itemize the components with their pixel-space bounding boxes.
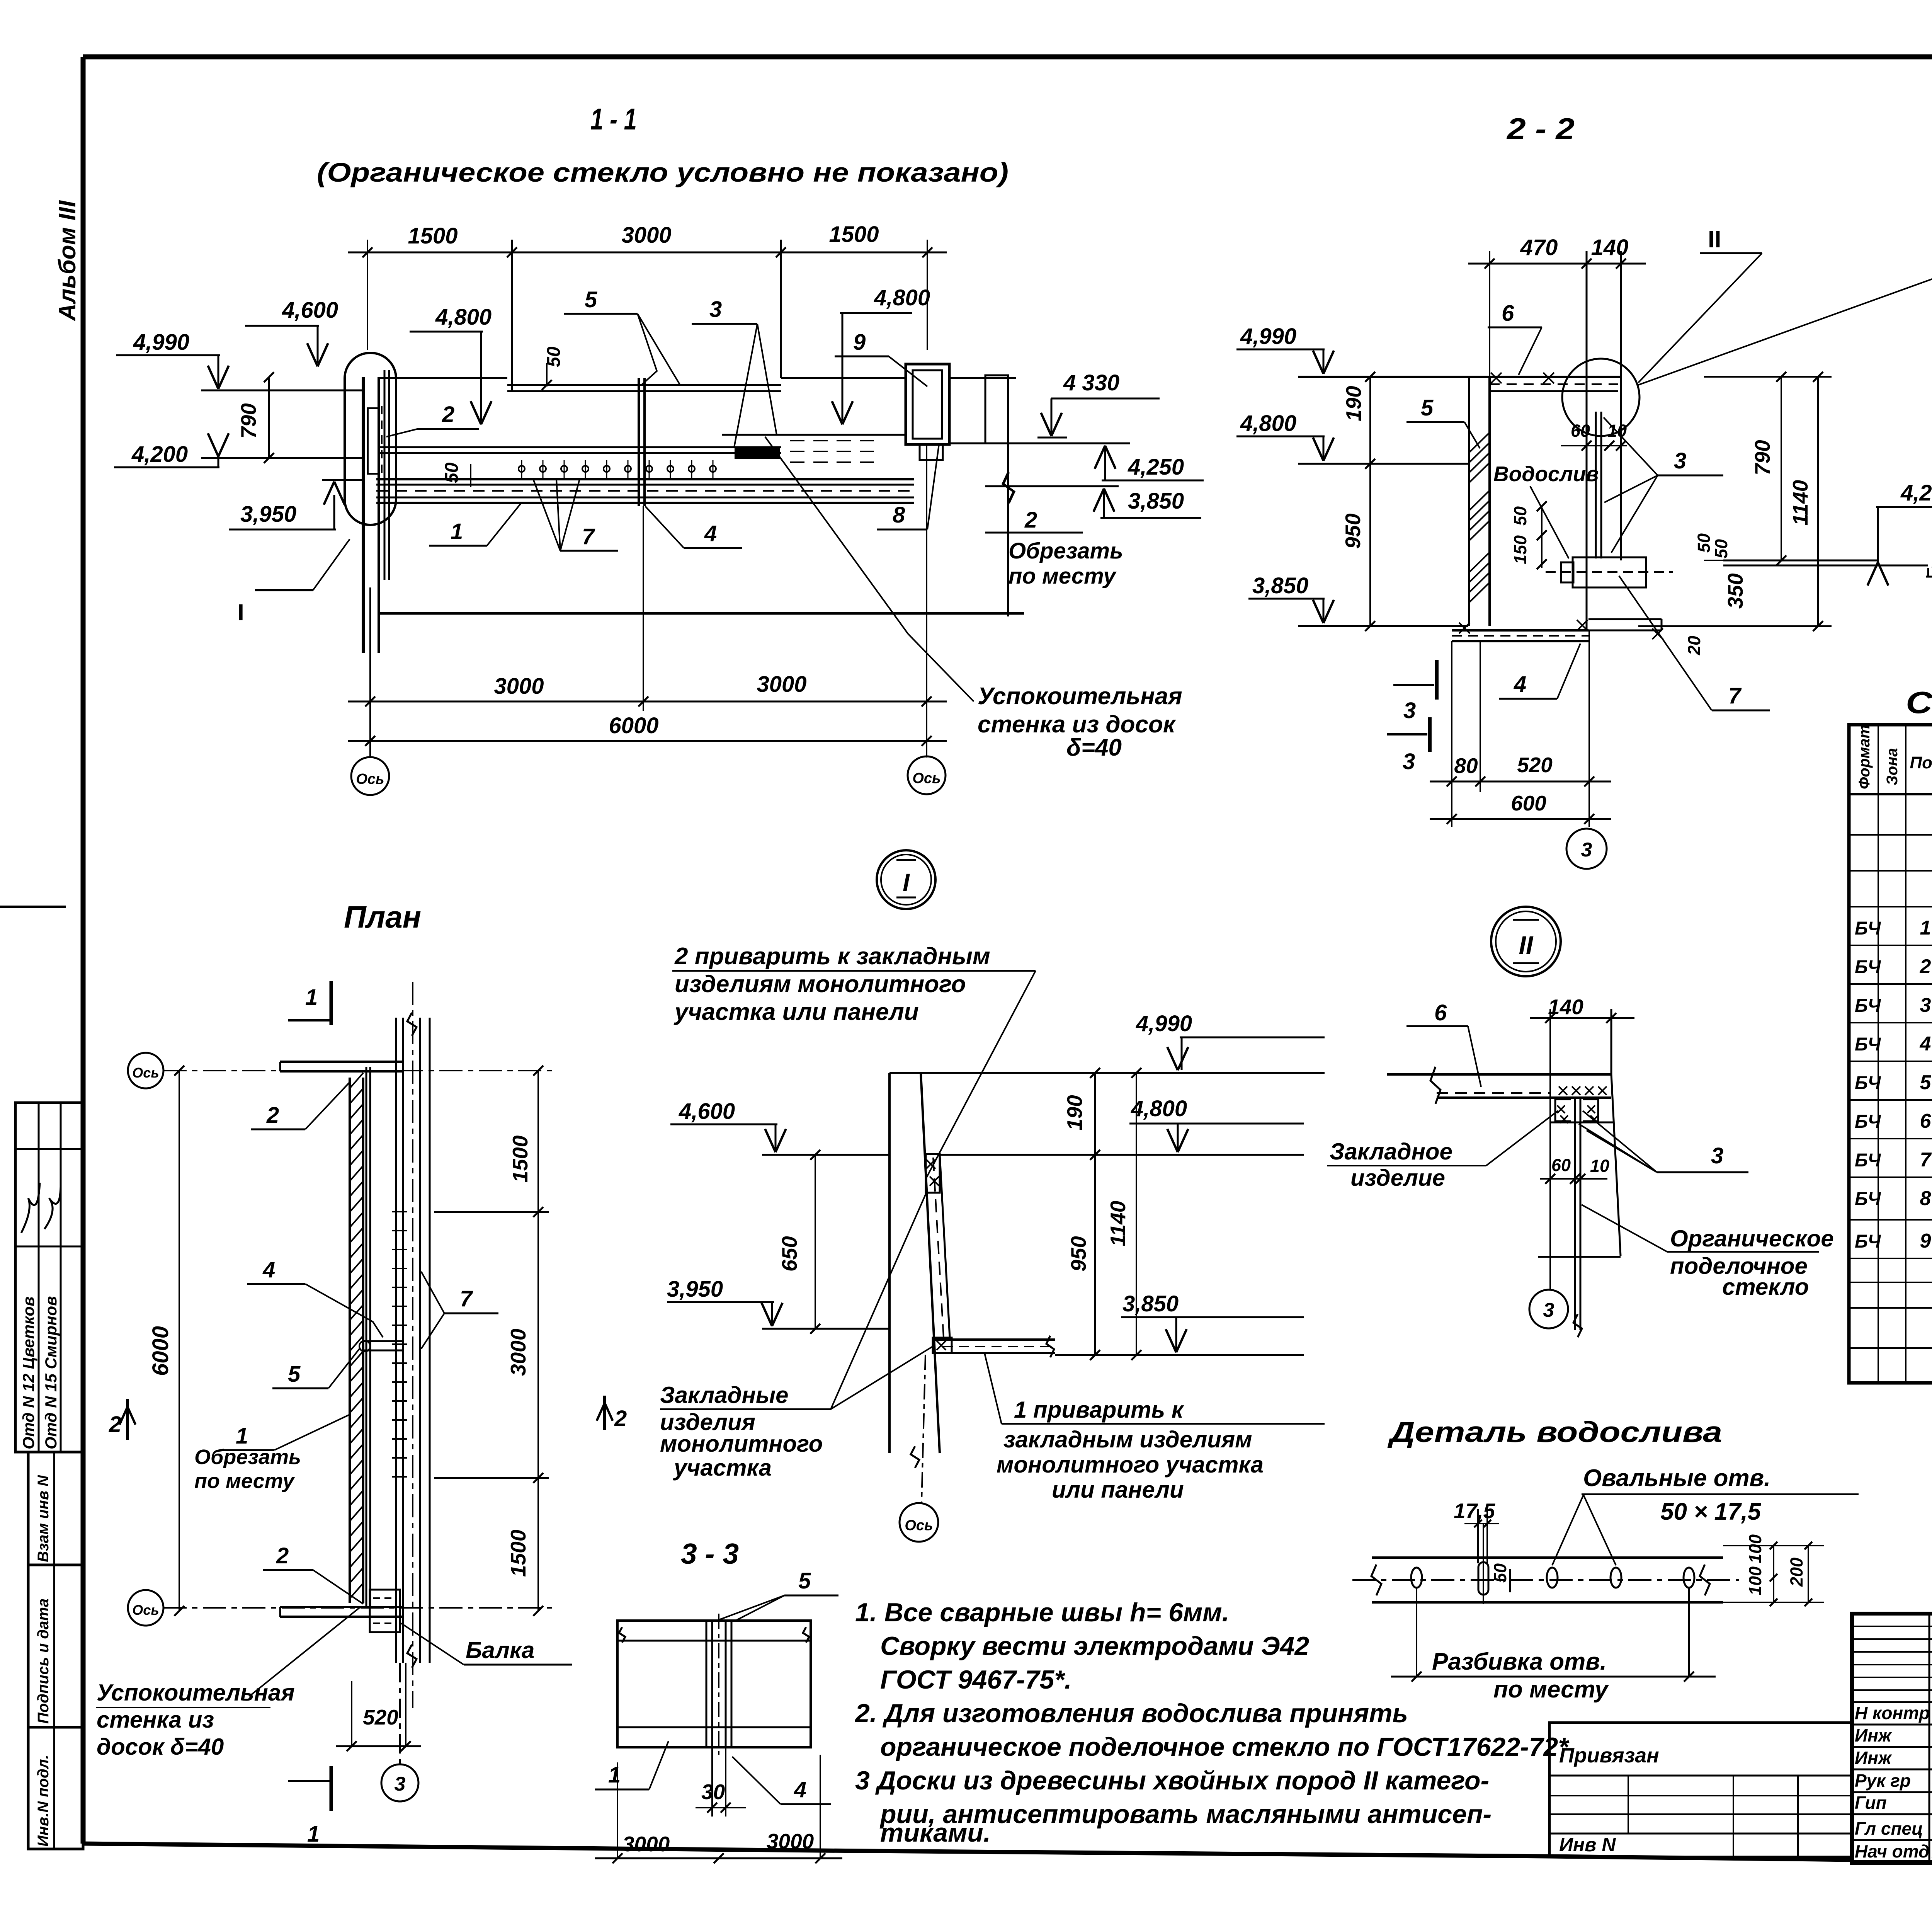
svg-text:ГОСТ 9467-75*.: ГОСТ 9467-75*. [880,1665,1072,1694]
svg-text:520: 520 [1517,753,1553,777]
svg-text:2: 2 [1024,507,1037,533]
svg-text:Инж: Инж [1855,1725,1892,1745]
svg-text:2: 2 [276,1543,289,1568]
svg-text:1500: 1500 [506,1529,530,1577]
svg-text:по месту: по месту [1493,1676,1609,1703]
svg-text:7: 7 [582,524,595,549]
svg-text:150: 150 [1510,535,1530,564]
svg-text:6000: 6000 [609,713,658,738]
svg-text:3,950: 3,950 [667,1277,723,1302]
svg-text:5: 5 [1421,395,1434,421]
svg-text:Инж: Инж [1855,1748,1892,1768]
svg-text:БЧ: БЧ [1855,1150,1881,1171]
svg-text:3: 3 [709,297,722,322]
svg-text:Сворку вести электродами Э42: Сворку вести электродами Э42 [880,1631,1309,1661]
svg-text:монолитного участка: монолитного участка [997,1452,1264,1478]
svg-text:2. Для изготовления водослив: 2. Для изготовления водослива принять [854,1699,1408,1728]
svg-text:1140: 1140 [1788,480,1812,526]
svg-text:50: 50 [1490,1563,1510,1583]
svg-text:60: 60 [1571,421,1590,441]
svg-text:Отд N 12 Цветков: Отд N 12 Цветков [19,1297,37,1449]
svg-text:950: 950 [1066,1236,1090,1272]
svg-text:БЧ: БЧ [1855,1112,1881,1132]
svg-text:Разбивка отв.: Разбивка отв. [1432,1648,1607,1675]
svg-text:9: 9 [1920,1230,1931,1252]
svg-text:4,200: 4,200 [131,442,188,467]
svg-text:4,800: 4,800 [1240,411,1296,436]
svg-text:Рук гр: Рук гр [1855,1771,1911,1791]
svg-text:50 × 17,5: 50 × 17,5 [1660,1498,1762,1525]
svg-text:БЧ: БЧ [1855,1034,1881,1055]
svg-text:План: План [344,900,421,934]
svg-text:Ось: Ось [356,771,384,787]
svg-text:1500: 1500 [508,1135,532,1183]
svg-text:1 - 1: 1 - 1 [590,102,637,136]
svg-text:3: 3 [395,1773,406,1795]
svg-text:60: 60 [1551,1155,1571,1175]
svg-text:Успокоительная: Успокоительная [978,683,1182,710]
svg-text:5: 5 [288,1362,301,1387]
svg-text:Закладное: Закладное [1330,1139,1452,1165]
svg-text:I: I [903,868,910,896]
svg-text:Гл спец: Гл спец [1855,1818,1923,1839]
svg-text:4 330: 4 330 [1063,370,1119,395]
svg-text:4: 4 [262,1257,275,1282]
svg-text:Спецификация элементов на 1: Спецификация элементов на 1 водослив [1906,685,1932,720]
svg-text:100: 100 [1745,1534,1765,1563]
svg-text:тиками.: тиками. [880,1818,991,1847]
svg-text:4,800: 4,800 [1131,1096,1187,1121]
svg-text:участка или панели: участка или панели [673,999,919,1025]
svg-text:3000: 3000 [506,1328,530,1376]
svg-text:Взам инв N: Взам инв N [35,1475,52,1562]
svg-text:Обрезать: Обрезать [194,1445,301,1469]
svg-text:4,800: 4,800 [874,285,930,310]
svg-text:БЧ: БЧ [1855,957,1881,977]
svg-text:1: 1 [236,1423,248,1449]
svg-text:2 приварить к закладным: 2 приварить к закладным [674,943,990,970]
svg-text:или панели: или панели [1052,1477,1184,1503]
svg-text:7: 7 [1728,683,1742,708]
svg-text:I: I [238,599,244,625]
svg-text:790: 790 [1750,440,1774,475]
svg-text:стекло: стекло [1722,1274,1809,1300]
svg-text:органическое поделочное стек: органическое поделочное стекло по ГОСТ17… [880,1732,1570,1762]
svg-text:80: 80 [1454,754,1478,778]
svg-text:стенка из: стенка из [97,1707,214,1733]
svg-text:Формат: Формат [1856,725,1873,789]
svg-text:3000: 3000 [494,674,544,699]
svg-text:7: 7 [460,1286,473,1311]
svg-text:2: 2 [266,1103,279,1128]
svg-text:2: 2 [1920,955,1931,978]
svg-text:3000: 3000 [622,1832,670,1856]
svg-text:3: 3 [1581,839,1592,861]
svg-text:790: 790 [236,403,260,439]
svg-text:Гип: Гип [1855,1793,1887,1813]
svg-text:Ось: Ось [905,1517,933,1534]
svg-text:50: 50 [1510,506,1530,526]
svg-text:Балка: Балка [466,1637,534,1663]
svg-text:1. Все сварные швы h= 6мм.: 1. Все сварные швы h= 6мм. [855,1598,1229,1627]
svg-text:4,990: 4,990 [1136,1011,1192,1036]
svg-text:8: 8 [893,502,905,528]
svg-text:II: II [1708,226,1721,253]
svg-text:6: 6 [1434,1000,1447,1025]
svg-text:470: 470 [1520,235,1558,260]
svg-text:1: 1 [1920,917,1931,939]
svg-text:350: 350 [1723,573,1747,609]
svg-text:монолитного: монолитного [660,1431,823,1457]
svg-text:10: 10 [1590,1156,1609,1176]
svg-text:досок δ=40: досок δ=40 [97,1734,224,1760]
svg-text:650: 650 [777,1236,801,1272]
svg-text:Овальные отв.: Овальные отв. [1583,1465,1770,1491]
svg-text:3: 3 [1674,448,1686,473]
svg-text:4: 4 [794,1777,806,1802]
svg-text:3000: 3000 [621,223,671,248]
svg-text:950: 950 [1341,513,1365,549]
svg-text:1140: 1140 [1106,1200,1130,1246]
svg-text:1500: 1500 [829,222,879,247]
svg-text:2: 2 [109,1412,121,1437]
svg-text:4,800: 4,800 [435,305,492,330]
svg-text:закладным изделиям: закладным изделиям [1003,1427,1252,1452]
svg-text:изделиям монолитного: изделиям монолитного [675,971,966,998]
svg-text:8: 8 [1920,1187,1931,1210]
svg-text:Деталь водослива: Деталь водослива [1387,1416,1722,1448]
svg-text:участка: участка [673,1455,772,1481]
svg-text:3000: 3000 [767,1829,814,1853]
svg-text:3,850: 3,850 [1252,573,1308,598]
svg-text:II: II [1519,931,1534,959]
svg-text:190: 190 [1063,1095,1087,1130]
svg-text:4,600: 4,600 [282,298,338,323]
svg-text:Инв N: Инв N [1559,1834,1616,1856]
svg-text:50: 50 [1711,539,1731,558]
svg-text:20: 20 [1684,636,1704,655]
svg-text:3: 3 [1543,1299,1554,1321]
svg-text:3: 3 [1711,1143,1723,1168]
svg-text:по месту: по месту [1009,564,1117,589]
svg-text:9: 9 [853,330,866,355]
svg-text:3 Доски из древесины хвойны: 3 Доски из древесины хвойных пород II ка… [855,1766,1489,1795]
svg-text:Н контр: Н контр [1855,1703,1930,1723]
svg-text:30: 30 [701,1780,725,1804]
svg-text:600: 600 [1511,791,1546,815]
svg-text:5: 5 [798,1568,811,1594]
svg-text:50: 50 [1694,533,1714,553]
svg-text:стенка из досок: стенка из досок [978,711,1176,738]
svg-text:Поз: Поз [1910,753,1932,772]
svg-text:Подпись и дата: Подпись и дата [35,1599,52,1724]
svg-text:по месту: по месту [194,1469,295,1493]
svg-text:7: 7 [1920,1149,1932,1171]
svg-text:Альбом III: Альбом III [54,200,81,322]
svg-text:Ось: Ось [132,1602,159,1618]
svg-text:6: 6 [1920,1110,1932,1132]
svg-text:Органическое: Органическое [1670,1226,1834,1251]
svg-text:4,250: 4,250 [1128,455,1184,480]
svg-text:БЧ: БЧ [1855,1073,1881,1093]
svg-text:140: 140 [1591,235,1629,260]
svg-text:δ=40: δ=40 [1066,734,1122,761]
svg-text:1: 1 [451,519,463,544]
svg-text:БЧ: БЧ [1855,996,1881,1016]
svg-text:6: 6 [1502,301,1514,326]
svg-text:Отд N 15 Смирнов: Отд N 15 Смирнов [42,1296,60,1449]
svg-text:2: 2 [614,1406,627,1431]
svg-text:БЧ: БЧ [1855,1189,1881,1209]
svg-text:5: 5 [1920,1071,1932,1094]
svg-text:4: 4 [1514,672,1526,697]
svg-text:1 приварить к: 1 приварить к [1014,1397,1184,1423]
svg-text:1: 1 [307,1822,320,1847]
svg-text:1500: 1500 [408,223,457,249]
svg-text:4,990: 4,990 [1240,324,1296,349]
svg-text:3: 3 [1403,698,1416,723]
svg-text:4,600: 4,600 [679,1099,735,1124]
svg-text:3000: 3000 [757,672,806,697]
svg-text:3: 3 [1920,994,1931,1016]
svg-text:6000: 6000 [148,1326,173,1376]
svg-text:5: 5 [585,287,597,312]
svg-text:Инв.N подл.: Инв.N подл. [35,1755,52,1847]
svg-text:Нач отд: Нач отд [1855,1841,1929,1861]
svg-text:17,5: 17,5 [1454,1499,1495,1523]
svg-text:3 - 3: 3 - 3 [681,1537,739,1570]
svg-text:Закладные: Закладные [660,1382,788,1408]
svg-text:БЧ: БЧ [1855,1231,1881,1252]
svg-text:(Органическое стекло условно н: (Органическое стекло условно не показано… [317,157,1009,187]
svg-text:200: 200 [1787,1558,1806,1587]
svg-text:10: 10 [1607,421,1627,441]
svg-text:Обрезать: Обрезать [1009,538,1123,564]
svg-text:2 - 2: 2 - 2 [1506,112,1575,146]
svg-text:100: 100 [1745,1566,1765,1595]
svg-text:4: 4 [704,521,717,546]
svg-text:3: 3 [1403,749,1415,774]
svg-text:1: 1 [305,985,318,1010]
svg-text:190: 190 [1342,386,1366,421]
svg-text:4,990: 4,990 [133,330,189,355]
svg-text:3,850: 3,850 [1122,1291,1179,1316]
svg-text:1: 1 [608,1762,621,1788]
svg-text:3,850: 3,850 [1128,489,1184,514]
svg-text:3,950: 3,950 [240,502,296,527]
svg-text:Ось: Ось [132,1065,159,1081]
svg-text:Зона: Зона [1884,748,1901,785]
svg-text:Водослив: Водослив [1493,462,1599,486]
svg-text:изделие: изделие [1350,1165,1445,1191]
svg-text:4,250: 4,250 [1900,480,1932,506]
svg-text:БЧ: БЧ [1855,918,1881,939]
svg-text:2: 2 [442,402,454,427]
svg-text:4: 4 [1920,1033,1931,1055]
svg-text:Привязан: Привязан [1559,1744,1659,1767]
svg-text:520: 520 [363,1705,398,1729]
svg-text:Ось: Ось [912,770,940,787]
